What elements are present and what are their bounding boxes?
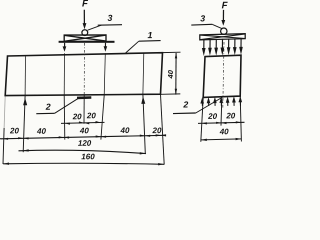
svg-text:2: 2 [45,102,51,112]
svg-text:20: 20 [9,126,19,135]
svg-text:20: 20 [152,126,162,135]
svg-text:120: 120 [78,139,92,148]
svg-text:160: 160 [81,152,95,161]
svg-text:20: 20 [72,112,82,121]
svg-text:3: 3 [200,13,205,23]
svg-text:2: 2 [182,100,188,110]
svg-text:40: 40 [36,127,46,136]
svg-text:40: 40 [120,126,130,135]
svg-text:40: 40 [219,127,229,136]
svg-text:40: 40 [79,126,89,135]
svg-text:1: 1 [148,30,153,40]
svg-text:20: 20 [225,111,235,120]
svg-text:40: 40 [166,69,175,79]
svg-text:3: 3 [108,13,113,23]
svg-text:20: 20 [207,112,217,121]
svg-text:20: 20 [86,111,96,120]
